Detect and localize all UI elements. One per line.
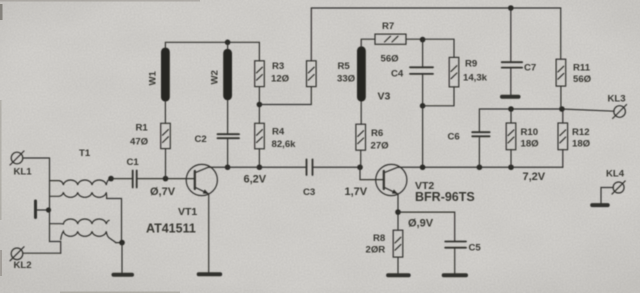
svg-text:C4: C4	[391, 69, 404, 80]
svg-text:R9: R9	[465, 59, 477, 70]
resistor R12	[558, 123, 568, 150]
wire R6 to rail node	[360, 150, 362, 167]
node C7 on top rail	[508, 5, 514, 11]
node emitter	[395, 209, 401, 215]
node R4 on rail	[257, 164, 263, 170]
ground under C7	[502, 95, 519, 99]
wire V3 top to R7	[361, 39, 375, 47]
left edge scan marks	[0, 4, 3, 20]
ground under C5	[444, 273, 466, 277]
resistor R3	[255, 61, 265, 87]
svg-text:KL4: KL4	[606, 169, 625, 180]
transformer T1 winding 1 lower coil	[50, 192, 107, 198]
svg-text:14,3k: 14,3k	[463, 73, 488, 84]
svg-text:KL2: KL2	[14, 260, 32, 271]
node R6/base	[357, 164, 363, 170]
ground at KL4	[592, 203, 608, 207]
svg-text:47Ø: 47Ø	[130, 137, 149, 148]
wire T1 output to C1	[111, 178, 132, 180]
wire node to R9 top	[423, 39, 454, 57]
svg-text:R12: R12	[572, 127, 590, 138]
wire C2 to collector rail	[227, 138, 229, 167]
wire winding1 lower to bottom node	[107, 199, 122, 243]
svg-text:R11: R11	[573, 63, 591, 74]
svg-text:2ØR: 2ØR	[366, 245, 386, 256]
wire C5 to ground	[454, 248, 456, 274]
svg-text:Ø,9V: Ø,9V	[408, 218, 434, 230]
stripline W2	[223, 49, 232, 101]
wire KL4 to ground	[601, 188, 613, 204]
svg-text:W1: W1	[147, 70, 158, 85]
node C6 on rail	[477, 164, 483, 170]
wire C1 to VT1 base	[137, 178, 194, 180]
capacitor C4	[410, 67, 433, 74]
svg-text:Ø,7V: Ø,7V	[150, 186, 176, 198]
resistor R6	[356, 124, 366, 150]
wire W1 bottom to R1	[164, 101, 166, 124]
resistor R9	[449, 57, 459, 87]
svg-text:R8: R8	[373, 233, 386, 244]
wire R1 to base line	[165, 149, 167, 179]
svg-text:7,2V: 7,2V	[523, 171, 546, 183]
wire winding2 lower to bottom node	[116, 242, 123, 244]
svg-text:R3: R3	[272, 61, 284, 72]
svg-text:R5: R5	[338, 61, 351, 72]
stripline V3	[357, 46, 366, 101]
svg-text:R6: R6	[371, 128, 383, 139]
transformer T1 winding 2 upper coil	[50, 219, 110, 224]
ground under T1	[114, 273, 133, 277]
wire R4 to rail	[258, 149, 260, 167]
node R10 top	[508, 106, 514, 112]
svg-text:VT1: VT1	[178, 206, 197, 218]
node T1 bottom	[119, 240, 125, 246]
output line to KL3	[479, 109, 614, 132]
wire R10 top	[510, 109, 512, 123]
node on rail at stub	[46, 207, 51, 212]
svg-text:C7: C7	[524, 63, 536, 74]
wire W2 bottom to C2	[227, 100, 229, 134]
svg-text:1,7V: 1,7V	[345, 186, 368, 198]
capacitor C3	[307, 159, 313, 175]
wire VT2 emitter down	[397, 194, 399, 230]
svg-text:BFR-96TS: BFR-96TS	[415, 190, 475, 204]
wire base jog	[360, 167, 383, 179]
resistor R4	[255, 123, 265, 149]
collector rail 6.2V	[209, 166, 307, 168]
wire R12 top	[562, 109, 564, 123]
capacitor C2	[218, 134, 240, 138]
svg-text:C2: C2	[195, 134, 207, 145]
connector KL2	[10, 247, 24, 261]
node C4 branch on rail	[420, 164, 426, 170]
capacitor C7	[502, 62, 522, 67]
ground under R8	[388, 273, 409, 277]
wire KL1 to rail	[23, 157, 50, 159]
resistor R11	[556, 59, 566, 86]
resistor R8	[393, 230, 403, 257]
connector KL4	[612, 181, 625, 194]
stub electrode at transformer center tap	[36, 201, 49, 218]
node W2 top	[225, 40, 231, 46]
svg-text:27Ø: 27Ø	[371, 140, 390, 151]
svg-text:56Ø: 56Ø	[381, 54, 400, 65]
svg-text:T1: T1	[79, 148, 91, 159]
svg-text:12Ø: 12Ø	[271, 73, 290, 84]
svg-text:C3: C3	[303, 187, 315, 198]
wire C7 from top rail	[510, 8, 512, 62]
svg-text:33Ø: 33Ø	[337, 73, 356, 84]
svg-text:V3: V3	[378, 91, 391, 103]
wire R11 bottom to node	[560, 86, 562, 109]
wire top link down to R3	[258, 42, 260, 61]
wire R5 top to supply rail	[310, 8, 312, 61]
ground under VT1	[199, 272, 221, 276]
node R11/R12	[559, 106, 565, 112]
wire VT1 emitter to ground	[208, 194, 210, 273]
svg-text:R1: R1	[136, 123, 149, 134]
wire C6 leg up to output line	[478, 136, 480, 167]
svg-text:18Ø: 18Ø	[572, 138, 591, 149]
stripline W1	[161, 48, 170, 102]
wire rail down to R11	[560, 8, 562, 59]
node R7/C4/R9	[420, 37, 426, 43]
node T1 output	[108, 176, 114, 182]
svg-text:18Ø: 18Ø	[521, 138, 540, 149]
wire rail up to R12 bottom	[562, 150, 564, 168]
wire T1 bottom to ground	[121, 243, 123, 273]
svg-text:C1: C1	[127, 157, 140, 168]
wire C7 to ground	[510, 68, 512, 95]
resistor R5	[307, 61, 317, 87]
svg-text:R7: R7	[382, 21, 394, 32]
node base/R1	[163, 176, 169, 182]
svg-text:56Ø: 56Ø	[573, 74, 592, 85]
svg-text:82,6k: 82,6k	[272, 139, 297, 150]
capacitor C5	[445, 242, 466, 248]
svg-text:R4: R4	[272, 126, 285, 137]
svg-text:W2: W2	[210, 70, 221, 84]
wire bottom node to R9	[423, 87, 454, 106]
node R3/R5 link	[257, 102, 263, 108]
wire KL2 to rail	[23, 252, 61, 254]
resistor R1	[161, 123, 171, 148]
wire R10 bottom to rail	[510, 150, 512, 168]
resistor R7	[375, 34, 406, 44]
wire W2 top stub	[227, 42, 229, 49]
wire node down to C4	[422, 39, 424, 67]
wire C4 to bottom node	[422, 74, 424, 106]
wire link node to R5 bottom	[259, 87, 311, 105]
wire emitter branch to C5	[398, 212, 455, 241]
wire R3 bottom through node to R4	[258, 87, 260, 124]
wire left rail	[50, 158, 61, 253]
node C2 on rail	[225, 164, 231, 170]
transformer T1 winding 2 lower coil	[61, 231, 116, 242]
resistor R10	[506, 123, 516, 150]
transistor VT2	[376, 164, 407, 195]
transformer T1 winding 1 upper coil	[50, 179, 112, 185]
supply top rail	[311, 7, 560, 9]
connector KL1	[10, 151, 24, 165]
capacitor C6	[472, 132, 489, 136]
svg-text:6,2V: 6,2V	[244, 174, 267, 186]
svg-text:C6: C6	[448, 132, 460, 143]
svg-text:AT41511: AT41511	[146, 222, 196, 236]
node C4/R9 bottom	[420, 103, 426, 109]
wire W1 top	[165, 42, 259, 48]
svg-text:KL1: KL1	[14, 167, 33, 178]
node R10 on rail	[508, 164, 514, 170]
transistor VT1	[186, 164, 217, 195]
capacitor C1	[133, 171, 137, 188]
svg-text:KL3: KL3	[608, 94, 626, 105]
wire R7 to node	[406, 38, 423, 40]
wire R8 to ground	[397, 257, 399, 273]
wire bottom node down to collector rail	[422, 106, 424, 167]
svg-text:R10: R10	[521, 127, 539, 138]
svg-text:C5: C5	[469, 243, 482, 254]
wire C3 to VT2 base node	[313, 166, 361, 168]
wire V3 to R6	[360, 101, 362, 125]
collector rail VT2 7.2V	[399, 166, 563, 168]
connector KL3	[613, 105, 627, 119]
